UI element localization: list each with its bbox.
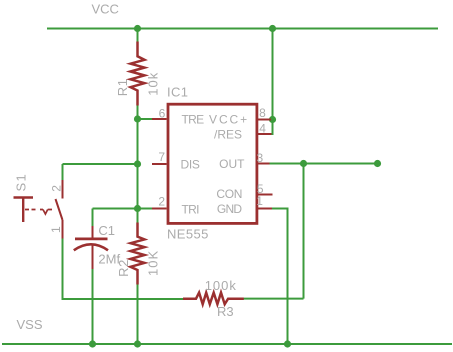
svg-text:TRE: TRE <box>182 113 205 127</box>
svg-text:1: 1 <box>49 226 63 233</box>
pin 6 TRE stub <box>152 118 167 120</box>
svg-text:NE555: NE555 <box>167 227 209 242</box>
switch S1 <box>14 180 63 239</box>
wire R3 right to OUT drop <box>243 298 303 300</box>
junction VSS-R2 <box>134 340 141 347</box>
wire VCC drop to pin 8 and pin 4 <box>271 29 273 135</box>
svg-text:CON: CON <box>216 187 242 201</box>
junction TRI node <box>134 205 141 212</box>
wire GND pin1 over and down to VSS <box>272 209 288 345</box>
wire node TRE to pin 6 <box>138 118 153 120</box>
wire C1 top drop <box>92 209 94 227</box>
svg-text:6: 6 <box>159 106 166 120</box>
node OUT wire end <box>374 160 381 167</box>
wire VCC drop to R1 <box>137 29 139 43</box>
junction TRE node <box>134 115 141 122</box>
op-amp style IC1 NE555 box <box>168 104 257 223</box>
junction OUT branch <box>300 160 307 167</box>
svg-text:2Mf: 2Mf <box>98 252 120 267</box>
wire DIS horizontal to switch <box>63 163 138 165</box>
wire OUT horizontal <box>270 163 378 165</box>
junction VSS-C1 <box>89 340 96 347</box>
pin 1 GND stub <box>256 208 272 210</box>
svg-text:R3: R3 <box>217 304 234 319</box>
wire R1 bottom to TRI junctions <box>137 105 139 224</box>
pin 5 CON stub <box>256 194 273 196</box>
pin 7 DIS stub <box>152 163 167 165</box>
wire TRI horizontal C1 to pin 2 <box>93 208 153 210</box>
svg-text:OUT: OUT <box>219 157 245 171</box>
svg-text:10K: 10K <box>145 251 160 276</box>
pin 2 TRI stub <box>152 208 167 210</box>
wire OUT down to R3 right <box>303 164 305 299</box>
resistor R1 <box>131 42 145 106</box>
svg-text:S1: S1 <box>13 174 28 191</box>
wire C1 bottom to VSS rail <box>92 269 94 345</box>
resistor R2 <box>131 223 145 285</box>
pin 4 /RES stub <box>256 133 272 135</box>
svg-text:2: 2 <box>49 185 63 192</box>
wire VSS bottom rail <box>2 343 452 345</box>
junction VCC-pin8 drop <box>269 25 276 32</box>
capacitor C1 <box>74 226 108 269</box>
junction VSS-GND drop <box>284 340 291 347</box>
svg-text:VSS: VSS <box>17 317 43 332</box>
svg-text:7: 7 <box>158 150 165 164</box>
svg-text:C1: C1 <box>98 223 115 238</box>
svg-text:DIS: DIS <box>181 158 200 172</box>
svg-text:/RES: /RES <box>214 128 242 142</box>
wire switch top drop <box>62 164 64 180</box>
wire R2 bottom to VSS rail <box>137 284 139 344</box>
svg-text:IC1: IC1 <box>167 85 188 100</box>
svg-text:VCC: VCC <box>92 2 119 17</box>
svg-text:3: 3 <box>257 151 264 165</box>
junction VCC-R1 <box>134 25 141 32</box>
svg-text:2: 2 <box>158 194 165 208</box>
svg-text:8: 8 <box>259 106 266 120</box>
svg-text:1: 1 <box>256 194 263 208</box>
resistor R3 <box>183 293 244 305</box>
pin 3 OUT stub <box>256 163 270 165</box>
wire switch pin1 down and over to R3 <box>63 239 184 300</box>
svg-text:10k: 10k <box>146 72 161 95</box>
svg-text:100k: 100k <box>205 278 237 293</box>
svg-text:R1: R1 <box>115 79 130 96</box>
pin 8 VCC+ stub <box>256 119 271 121</box>
svg-text:TRI: TRI <box>182 202 200 216</box>
svg-text:GND: GND <box>217 202 243 216</box>
junction pin 8 <box>269 116 276 123</box>
wire VCC top rail <box>47 28 438 30</box>
svg-text:4: 4 <box>259 122 266 136</box>
svg-text:VCC+: VCC+ <box>209 113 249 127</box>
junction DIS node <box>134 160 141 167</box>
